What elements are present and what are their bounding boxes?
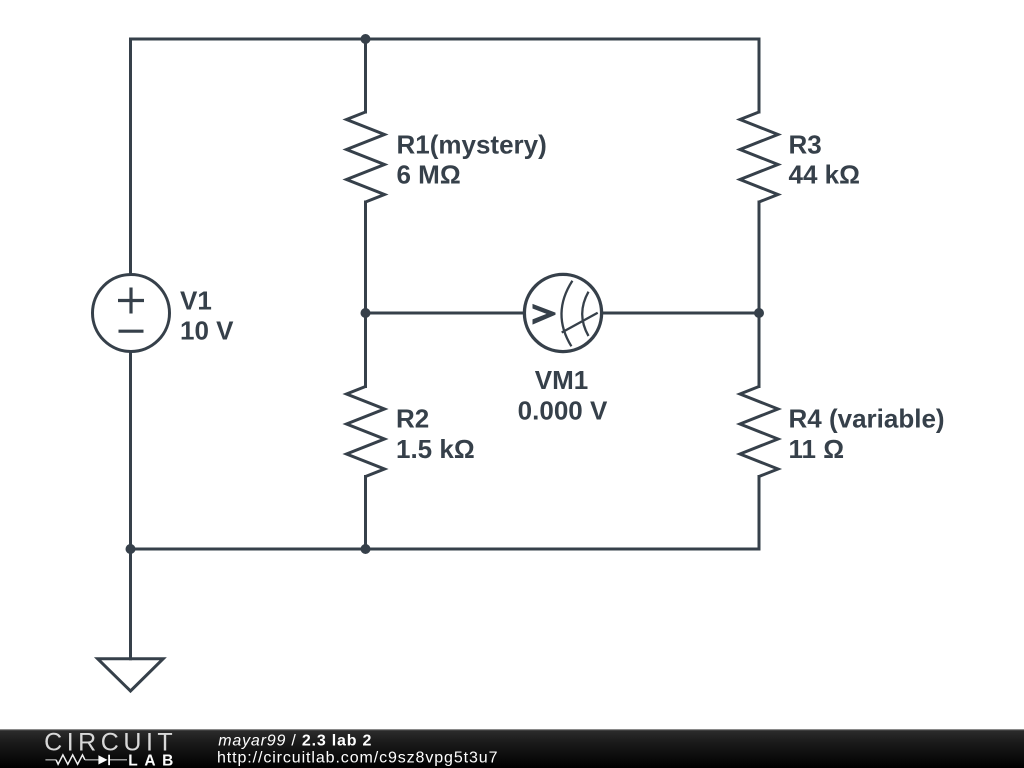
svg-text:V1: V1 — [180, 286, 212, 316]
svg-text:R1(mystery): R1(mystery) — [397, 129, 547, 159]
svg-text:6 MΩ: 6 MΩ — [397, 160, 461, 190]
svg-text:LAB: LAB — [128, 752, 173, 768]
svg-text:1.5 kΩ: 1.5 kΩ — [396, 434, 475, 464]
svg-text:0.000 V: 0.000 V — [518, 396, 608, 426]
svg-text:mayar99 / 2.3 lab 2: mayar99 / 2.3 lab 2 — [218, 732, 372, 749]
svg-text:R3: R3 — [789, 129, 822, 159]
svg-text:R2: R2 — [396, 404, 429, 434]
svg-text:11 Ω: 11 Ω — [789, 434, 845, 464]
svg-text:VM1: VM1 — [535, 365, 588, 395]
svg-text:44 kΩ: 44 kΩ — [789, 160, 860, 190]
svg-text:10 V: 10 V — [180, 315, 234, 345]
svg-text:http://circuitlab.com/c9sz8vpg: http://circuitlab.com/c9sz8vpg5t3u7 — [217, 750, 498, 767]
svg-text:R4 (variable): R4 (variable) — [789, 404, 945, 434]
